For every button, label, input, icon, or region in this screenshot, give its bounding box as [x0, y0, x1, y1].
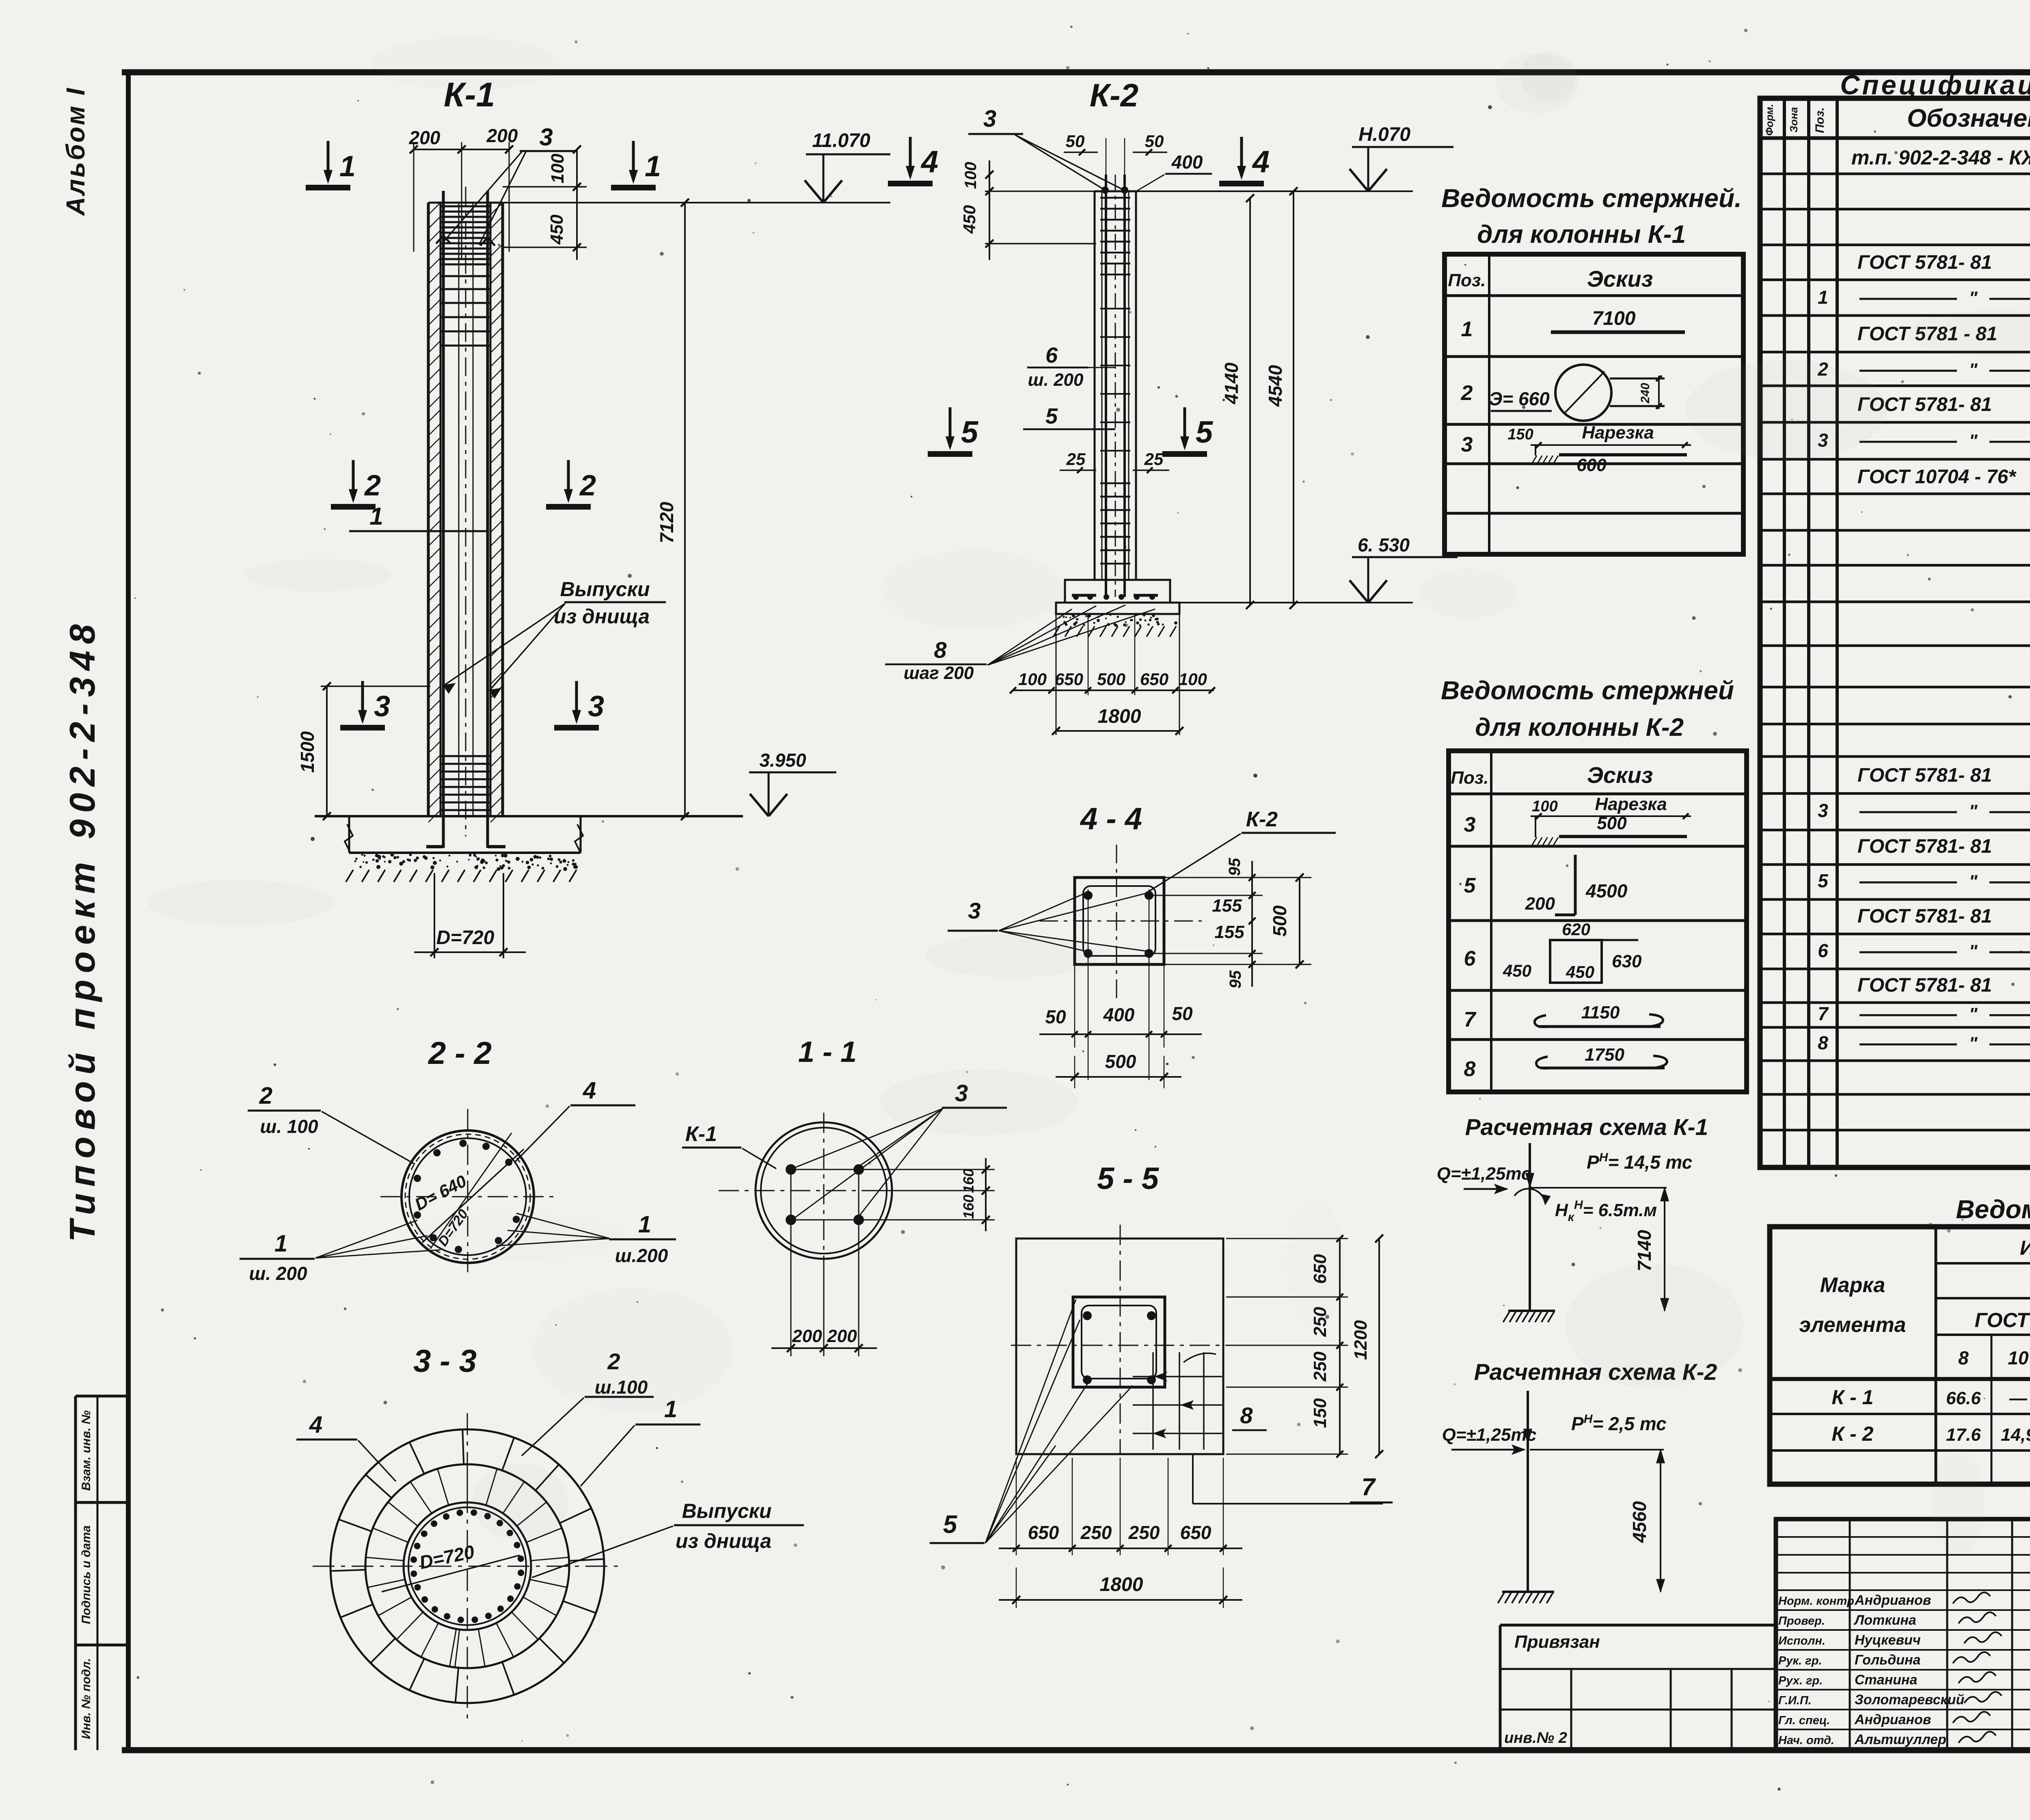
- svg-text:100: 100: [1018, 670, 1047, 689]
- svg-text:95: 95: [1227, 970, 1244, 988]
- svg-text:150: 150: [1310, 1398, 1330, 1428]
- svg-text:Эскиз: Эскиз: [1587, 762, 1653, 788]
- svg-text:3: 3: [1461, 433, 1473, 456]
- svg-text:ГОСТ 10704 - 76*: ГОСТ 10704 - 76*: [1857, 466, 2017, 488]
- svg-text:Альбом I: Альбом I: [61, 86, 90, 216]
- svg-text:": ": [1969, 1004, 1978, 1024]
- svg-text:3: 3: [983, 106, 996, 132]
- svg-text:К - 1: К - 1: [1832, 1386, 1874, 1409]
- svg-text:": ": [1969, 941, 1978, 961]
- svg-text:Поз.: Поз.: [1813, 107, 1827, 133]
- svg-text:160: 160: [960, 1169, 977, 1193]
- svg-text:4: 4: [1252, 145, 1270, 179]
- svg-text:Исполн.: Исполн.: [1778, 1634, 1825, 1647]
- svg-text:Ведомость стержней.: Ведомость стержней.: [1441, 184, 1742, 213]
- svg-text:Типовой проект 902-2-348: Типовой проект 902-2-348: [62, 618, 102, 1242]
- svg-text:8: 8: [1958, 1347, 1969, 1368]
- svg-text:Подпись и дата: Подпись и дата: [80, 1525, 93, 1624]
- svg-text:Нуцкевич: Нуцкевич: [1855, 1632, 1921, 1648]
- svg-text:8: 8: [934, 637, 947, 663]
- svg-text:6: 6: [1045, 343, 1058, 367]
- svg-text:250: 250: [1080, 1522, 1112, 1543]
- svg-text:1750: 1750: [1585, 1045, 1624, 1065]
- svg-text:5: 5: [943, 1511, 958, 1539]
- svg-text:95: 95: [1226, 858, 1244, 876]
- svg-text:Э= 660: Э= 660: [1489, 388, 1550, 409]
- svg-text:1: 1: [369, 503, 383, 530]
- svg-text:Ведомость стержней: Ведомость стержней: [1441, 676, 1734, 705]
- svg-text:К-2: К-2: [1246, 808, 1278, 831]
- svg-text:Нач. отд.: Нач. отд.: [1778, 1734, 1834, 1747]
- svg-text:600: 600: [1576, 455, 1607, 475]
- svg-text:50: 50: [1172, 1003, 1193, 1024]
- svg-text:": ": [1969, 360, 1978, 380]
- svg-text:650: 650: [1028, 1522, 1059, 1543]
- svg-text:500: 500: [1269, 905, 1290, 936]
- svg-text:1500: 1500: [297, 731, 318, 773]
- svg-text:11.070: 11.070: [812, 130, 870, 151]
- svg-text:Марка: Марка: [1820, 1273, 1885, 1297]
- svg-text:из днища: из днища: [676, 1530, 771, 1552]
- svg-text:Лоткина: Лоткина: [1853, 1612, 1916, 1628]
- svg-text:400: 400: [1103, 1004, 1135, 1025]
- svg-text:1150: 1150: [1581, 1003, 1620, 1022]
- svg-text:25: 25: [1066, 450, 1086, 469]
- svg-text:3: 3: [374, 690, 390, 723]
- svg-text:3: 3: [1818, 800, 1828, 821]
- svg-text:450: 450: [960, 205, 979, 234]
- svg-text:": ": [1969, 431, 1978, 451]
- svg-text:100: 100: [1532, 798, 1557, 815]
- svg-text:4: 4: [583, 1077, 596, 1104]
- svg-text:для колонны К-2: для колонны К-2: [1475, 713, 1684, 741]
- svg-text:Нарезка: Нарезка: [1582, 423, 1654, 443]
- svg-text:400: 400: [1171, 151, 1203, 173]
- svg-text:1: 1: [274, 1230, 287, 1257]
- svg-text:100: 100: [548, 153, 568, 184]
- svg-text:К - 2: К - 2: [1832, 1422, 1874, 1445]
- svg-text:250: 250: [1128, 1522, 1160, 1543]
- svg-text:3: 3: [539, 123, 553, 151]
- svg-text:Станина: Станина: [1855, 1672, 1917, 1688]
- svg-text:Поз.: Поз.: [1451, 768, 1488, 788]
- svg-text:1: 1: [645, 150, 661, 183]
- svg-text:К-1: К-1: [685, 1122, 717, 1146]
- svg-text:50: 50: [1145, 132, 1164, 151]
- svg-text:4140: 4140: [1221, 362, 1242, 404]
- svg-text:5: 5: [1818, 870, 1829, 891]
- svg-text:450: 450: [1503, 961, 1531, 980]
- svg-text:Норм. контр: Норм. контр: [1778, 1595, 1854, 1608]
- svg-text:ш. 200: ш. 200: [249, 1263, 307, 1284]
- svg-text:ГОСТ 5781- 81: ГОСТ 5781- 81: [1857, 975, 1992, 996]
- svg-text:14,9: 14,9: [2001, 1425, 2030, 1445]
- svg-text:Н.070: Н.070: [1358, 124, 1410, 145]
- svg-text:500: 500: [1597, 813, 1627, 833]
- svg-text:Эскиз: Эскиз: [1587, 266, 1653, 292]
- svg-text:5: 5: [1045, 404, 1058, 428]
- svg-text:1200: 1200: [1351, 1320, 1371, 1360]
- svg-text:3: 3: [1464, 813, 1476, 837]
- svg-text:5: 5: [1464, 874, 1476, 897]
- svg-text:200: 200: [827, 1326, 857, 1346]
- svg-text:элемента: элемента: [1799, 1313, 1906, 1337]
- svg-text:из днища: из днища: [554, 605, 650, 628]
- svg-text:1800: 1800: [1098, 706, 1141, 727]
- svg-text:630: 630: [1612, 951, 1642, 971]
- svg-text:7: 7: [1818, 1003, 1829, 1024]
- svg-text:650: 650: [1055, 670, 1083, 689]
- svg-text:100: 100: [1179, 670, 1207, 689]
- svg-text:": ": [1969, 801, 1978, 821]
- svg-text:5: 5: [961, 415, 979, 450]
- svg-text:2 - 2: 2 - 2: [428, 1035, 492, 1071]
- svg-text:1: 1: [1818, 287, 1828, 308]
- svg-text:155: 155: [1214, 922, 1244, 942]
- svg-text:Форм.: Форм.: [1763, 104, 1775, 136]
- svg-text:Расчетная схема К-1: Расчетная схема К-1: [1465, 1114, 1708, 1140]
- svg-text:1: 1: [1461, 318, 1473, 341]
- svg-text:5 - 5: 5 - 5: [1097, 1161, 1160, 1196]
- svg-text:450: 450: [1566, 962, 1594, 981]
- svg-text:2: 2: [259, 1083, 272, 1109]
- svg-text:1: 1: [638, 1211, 651, 1238]
- svg-text:200: 200: [486, 125, 518, 146]
- svg-text:Обозначение: Обозначение: [1907, 104, 2030, 132]
- svg-text:8: 8: [1240, 1403, 1253, 1428]
- svg-text:D=720: D=720: [436, 927, 495, 949]
- svg-text:25: 25: [1144, 450, 1164, 469]
- svg-text:т.п. 902-2-348 - КЖ -15: т.п. 902-2-348 - КЖ -15: [1851, 146, 2030, 169]
- svg-text:6: 6: [1818, 940, 1828, 961]
- svg-text:200: 200: [792, 1326, 822, 1346]
- svg-text:4560: 4560: [1629, 1501, 1650, 1543]
- svg-text:8: 8: [1464, 1057, 1476, 1081]
- svg-text:200: 200: [1525, 894, 1555, 914]
- svg-text:Золотаревский: Золотаревский: [1855, 1692, 1965, 1708]
- svg-text:4: 4: [920, 145, 938, 179]
- svg-text:Взам. инв. №: Взам. инв. №: [80, 1410, 93, 1491]
- svg-text:250: 250: [1310, 1351, 1330, 1382]
- svg-text:ш.200: ш.200: [615, 1245, 668, 1266]
- svg-text:Зона: Зона: [1788, 107, 1800, 133]
- svg-text:Гл. спец.: Гл. спец.: [1778, 1714, 1830, 1727]
- svg-text:3: 3: [968, 898, 980, 923]
- svg-text:Рук. гр.: Рук. гр.: [1778, 1654, 1822, 1667]
- svg-text:Ведомость расхода ст: Ведомость расхода стали: [1956, 1195, 2030, 1224]
- svg-text:7120: 7120: [656, 501, 677, 543]
- svg-text:50: 50: [1066, 132, 1085, 151]
- svg-text:2: 2: [1461, 381, 1473, 405]
- svg-text:3.950: 3.950: [759, 750, 806, 771]
- svg-text:шаг 200: шаг 200: [904, 663, 974, 683]
- svg-text:Выпуски: Выпуски: [682, 1500, 772, 1522]
- svg-text:Андрианов: Андрианов: [1854, 1712, 1931, 1727]
- svg-text:7: 7: [1361, 1473, 1376, 1500]
- svg-text:1800: 1800: [1100, 1574, 1143, 1595]
- svg-text:Q=±1,25тс: Q=±1,25тс: [1442, 1425, 1537, 1445]
- svg-text:Андрианов: Андрианов: [1854, 1593, 1931, 1608]
- svg-text:Гольдина: Гольдина: [1855, 1652, 1921, 1668]
- svg-text:66.6: 66.6: [1946, 1388, 1981, 1408]
- svg-text:5: 5: [1196, 415, 1214, 450]
- svg-text:": ": [1969, 288, 1978, 308]
- svg-text:4 - 4: 4 - 4: [1080, 802, 1142, 836]
- svg-text:Выпуски: Выпуски: [560, 578, 650, 601]
- svg-text:Инв. № подл.: Инв. № подл.: [80, 1658, 93, 1739]
- svg-text:ГОСТ 5781- 81: ГОСТ 5781- 81: [1857, 765, 1992, 786]
- svg-text:7: 7: [1464, 1008, 1477, 1031]
- svg-text:17.6: 17.6: [1946, 1425, 1981, 1445]
- svg-text:450: 450: [547, 214, 567, 245]
- svg-text:": ": [1969, 1033, 1978, 1053]
- svg-text:Провер.: Провер.: [1778, 1615, 1825, 1628]
- svg-text:Изделия арматурные: Изделия арматурные: [2020, 1236, 2030, 1259]
- svg-text:Привязан: Привязан: [1514, 1632, 1600, 1652]
- svg-text:4540: 4540: [1265, 365, 1286, 407]
- svg-text:160: 160: [960, 1195, 977, 1219]
- svg-text:500: 500: [1097, 670, 1125, 689]
- svg-text:6. 530: 6. 530: [1358, 534, 1410, 556]
- svg-text:2: 2: [579, 469, 596, 502]
- svg-text:ГОСТ 5781- 81: ГОСТ 5781- 81: [1857, 836, 1992, 857]
- svg-text:Альтшуллер: Альтшуллер: [1854, 1732, 1946, 1747]
- svg-text:Г.И.П.: Г.И.П.: [1778, 1694, 1812, 1707]
- svg-text:ГОСТ 5781 - 81: ГОСТ 5781 - 81: [1975, 1309, 2030, 1331]
- svg-text:50: 50: [1045, 1006, 1066, 1027]
- svg-text:6: 6: [1464, 947, 1476, 971]
- svg-text:3: 3: [588, 690, 604, 723]
- svg-text:7100: 7100: [1592, 308, 1636, 329]
- svg-text:200: 200: [409, 127, 441, 148]
- svg-text:100: 100: [962, 162, 980, 189]
- svg-text:650: 650: [1140, 670, 1168, 689]
- svg-text:для колонны К-1: для колонны К-1: [1477, 220, 1686, 249]
- svg-text:ш. 100: ш. 100: [260, 1116, 318, 1137]
- svg-text:500: 500: [1105, 1051, 1136, 1072]
- svg-text:155: 155: [1212, 896, 1242, 916]
- svg-text:—: —: [2009, 1388, 2028, 1408]
- svg-text:ш. 200: ш. 200: [1028, 370, 1084, 390]
- svg-text:инв.№ 2: инв.№ 2: [1504, 1729, 1567, 1747]
- svg-text:240: 240: [1639, 383, 1652, 404]
- svg-text:8: 8: [1818, 1032, 1828, 1053]
- svg-text:2: 2: [364, 469, 381, 502]
- svg-text:620: 620: [1562, 920, 1590, 939]
- svg-text:ГОСТ 5781- 81: ГОСТ 5781- 81: [1857, 906, 1992, 927]
- svg-text:": ": [1969, 871, 1978, 891]
- svg-text:Q=±1,25тс: Q=±1,25тс: [1437, 1164, 1531, 1184]
- svg-text:Нарезка: Нарезка: [1595, 794, 1667, 814]
- svg-text:10: 10: [2008, 1347, 2029, 1368]
- svg-text:650: 650: [1180, 1522, 1212, 1543]
- svg-text:150: 150: [1507, 426, 1533, 443]
- svg-text:1: 1: [339, 150, 356, 183]
- svg-text:3 - 3: 3 - 3: [413, 1343, 477, 1379]
- svg-text:4500: 4500: [1585, 880, 1628, 901]
- svg-text:Поз.: Поз.: [1448, 270, 1486, 290]
- svg-text:ГОСТ 5781- 81: ГОСТ 5781- 81: [1857, 252, 1992, 273]
- svg-text:1 - 1: 1 - 1: [798, 1036, 857, 1068]
- svg-text:Рух. гр.: Рух. гр.: [1778, 1674, 1823, 1687]
- svg-text:4: 4: [309, 1411, 322, 1438]
- svg-text:К-2: К-2: [1090, 77, 1138, 113]
